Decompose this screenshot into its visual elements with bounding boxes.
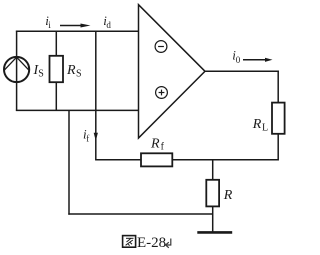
svg-text:f: f xyxy=(86,134,89,144)
wire left vertical through current source xyxy=(16,31,18,111)
wire outer feedback bottom rail xyxy=(68,213,212,215)
resistor Rf xyxy=(141,153,172,166)
wire bottom rail from source to op-amp xyxy=(16,109,139,111)
wire R branch vertical xyxy=(212,160,214,180)
label Rf xyxy=(150,137,165,153)
caption figure character tu xyxy=(123,236,136,248)
resistor RS xyxy=(50,31,64,110)
caption paragraph return mark xyxy=(166,239,171,248)
svg-text:E-28: E-28 xyxy=(137,235,166,251)
wire outer feedback left vertical xyxy=(68,110,70,214)
label id xyxy=(103,13,111,30)
svg-text:R: R xyxy=(66,63,76,78)
wire top rail from source to op-amp xyxy=(16,30,139,32)
svg-text:d: d xyxy=(106,20,111,30)
wire Rf row right segment to RL branch xyxy=(172,159,278,161)
label RL xyxy=(252,117,268,134)
label if xyxy=(83,127,89,144)
resistor R xyxy=(206,180,219,232)
current source IS xyxy=(4,57,29,82)
svg-text:S: S xyxy=(38,69,44,80)
svg-text:R: R xyxy=(252,117,262,132)
svg-text:L: L xyxy=(262,123,268,134)
svg-text:R: R xyxy=(223,188,233,203)
label IS xyxy=(33,63,44,80)
label RS xyxy=(66,63,82,80)
current arrow if xyxy=(94,133,98,141)
svg-text:0: 0 xyxy=(236,55,241,65)
wire Rf row left segment xyxy=(95,159,141,161)
current arrow io xyxy=(243,58,273,62)
ground xyxy=(197,231,232,234)
op-amp non-inverting input circle xyxy=(156,87,168,99)
resistor RL xyxy=(272,103,285,161)
wire op-amp output to RL xyxy=(205,71,279,103)
label ii xyxy=(45,13,51,30)
label io xyxy=(232,48,241,66)
op-amp U1 xyxy=(139,5,206,138)
op-amp inverting input circle xyxy=(155,41,167,53)
svg-text:R: R xyxy=(150,137,160,152)
current arrow ii xyxy=(60,24,91,28)
wire feedback vertical from top rail down to Rf row xyxy=(95,31,97,160)
svg-text:S: S xyxy=(76,69,82,80)
